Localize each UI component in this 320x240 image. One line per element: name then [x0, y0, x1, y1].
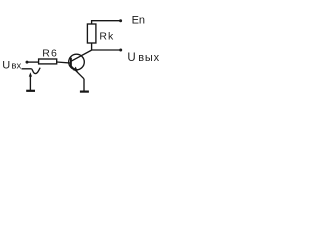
terminal: U вых dot — [119, 49, 122, 52]
transistor emitter lead — [71, 66, 84, 79]
svg-text:R6: R6 — [42, 48, 57, 60]
ground (input) — [26, 90, 35, 92]
wire: emitter down to ground — [83, 79, 85, 91]
terminal: upper input dot — [26, 61, 29, 64]
wire: input terminal to R6 — [27, 61, 39, 63]
resistor Rk body — [87, 24, 96, 43]
svg-text:Uвых: Uвых — [127, 52, 160, 64]
svg-text:Uвх: Uвх — [2, 60, 21, 72]
svg-text:Rk: Rk — [99, 31, 114, 43]
wire: input ground vertical — [29, 76, 31, 91]
wire: curved lead from lower terminal — [31, 68, 40, 74]
wire: R6 to transistor base — [57, 62, 71, 63]
ground (emitter) — [80, 90, 89, 92]
emitter arrowhead — [73, 67, 78, 72]
transistor base bar — [70, 58, 72, 67]
terminal: En dot — [119, 19, 122, 22]
transistor VT1 body circle — [69, 54, 85, 70]
wire: Rk top to En terminal — [92, 21, 121, 24]
transistor collector lead — [71, 50, 92, 61]
resistor R6 body — [39, 59, 57, 64]
arrowhead on input ground wire — [29, 72, 32, 76]
wire: collector node vertical stem — [91, 43, 93, 50]
wire: lower input terminal stub — [22, 68, 32, 70]
svg-text:En: En — [132, 15, 145, 27]
wire: collector node to output terminal — [92, 49, 121, 51]
